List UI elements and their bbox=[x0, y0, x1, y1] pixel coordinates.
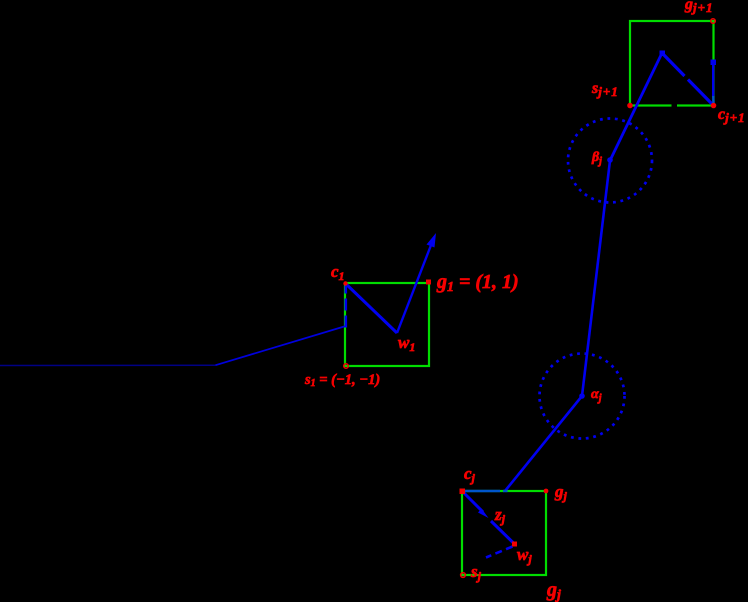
point g_j (red dot) bbox=[544, 489, 549, 494]
wire alpha_j to top edge of G_j bbox=[505, 396, 582, 491]
wire rising segment to G_1 left edge bbox=[216, 326, 346, 365]
wire w_j+1 to c_j+1 (with hash gap) bbox=[662, 53, 685, 76]
wire along top edge of G_j dash part bbox=[503, 490, 508, 492]
wire w_1 arrow out bbox=[397, 240, 433, 333]
wire w_j+1 to beta_j bbox=[610, 53, 662, 161]
wire c_j to w_j first part bbox=[463, 492, 484, 513]
arrowhead of w_1 trajectory bbox=[427, 233, 437, 248]
svg-text:s1 = (−1, −1): s1 = (−1, −1) bbox=[304, 372, 380, 389]
point c_j (red dot) bbox=[460, 489, 466, 495]
point g_j+1 (red open circle) bbox=[711, 19, 716, 24]
wire dashed continuation from w_j bbox=[486, 547, 513, 558]
point w_j (red dot) bbox=[512, 542, 517, 547]
point s_1 (red open circle) bbox=[344, 364, 349, 369]
svg-text:gj+1: gj+1 bbox=[684, 0, 714, 15]
point beta_j (blue dot) bbox=[607, 157, 613, 163]
wire c_j to w_j second part bbox=[491, 521, 515, 544]
point c_1 (red dot) bbox=[343, 281, 347, 285]
tick gap on bottom edge of G_j+1 bbox=[672, 103, 678, 109]
wire c_1 to w_1 bbox=[346, 284, 398, 334]
point w_j+1 (blue square) bbox=[660, 51, 666, 57]
wire beta_j to alpha_j bbox=[582, 161, 610, 397]
point c_j+1 (red dot) bbox=[711, 103, 717, 109]
square G_j+1 bbox=[630, 21, 714, 106]
point s_j (red open circle) bbox=[461, 573, 466, 578]
wire along top edge of G_j solid part bbox=[463, 490, 501, 492]
point s_j+1 (red dot) bbox=[627, 103, 633, 109]
wire dashed vertical along G_1 left edge bbox=[344, 284, 347, 328]
wire right-edge point down to c_j+1 bbox=[712, 62, 714, 96]
square G_j bbox=[462, 491, 546, 575]
dotted circle around beta_j bbox=[568, 119, 652, 203]
point on right edge of G_j+1 (blue square) bbox=[711, 60, 717, 66]
square G_1 bbox=[345, 283, 429, 366]
dotted circle around alpha_j bbox=[540, 354, 625, 439]
wire incoming horizontal line bbox=[0, 364, 216, 366]
arrowhead mid z_j bbox=[478, 509, 489, 519]
point g_1 (red dot) bbox=[426, 280, 431, 285]
point alpha_j (blue dot) bbox=[579, 393, 585, 399]
